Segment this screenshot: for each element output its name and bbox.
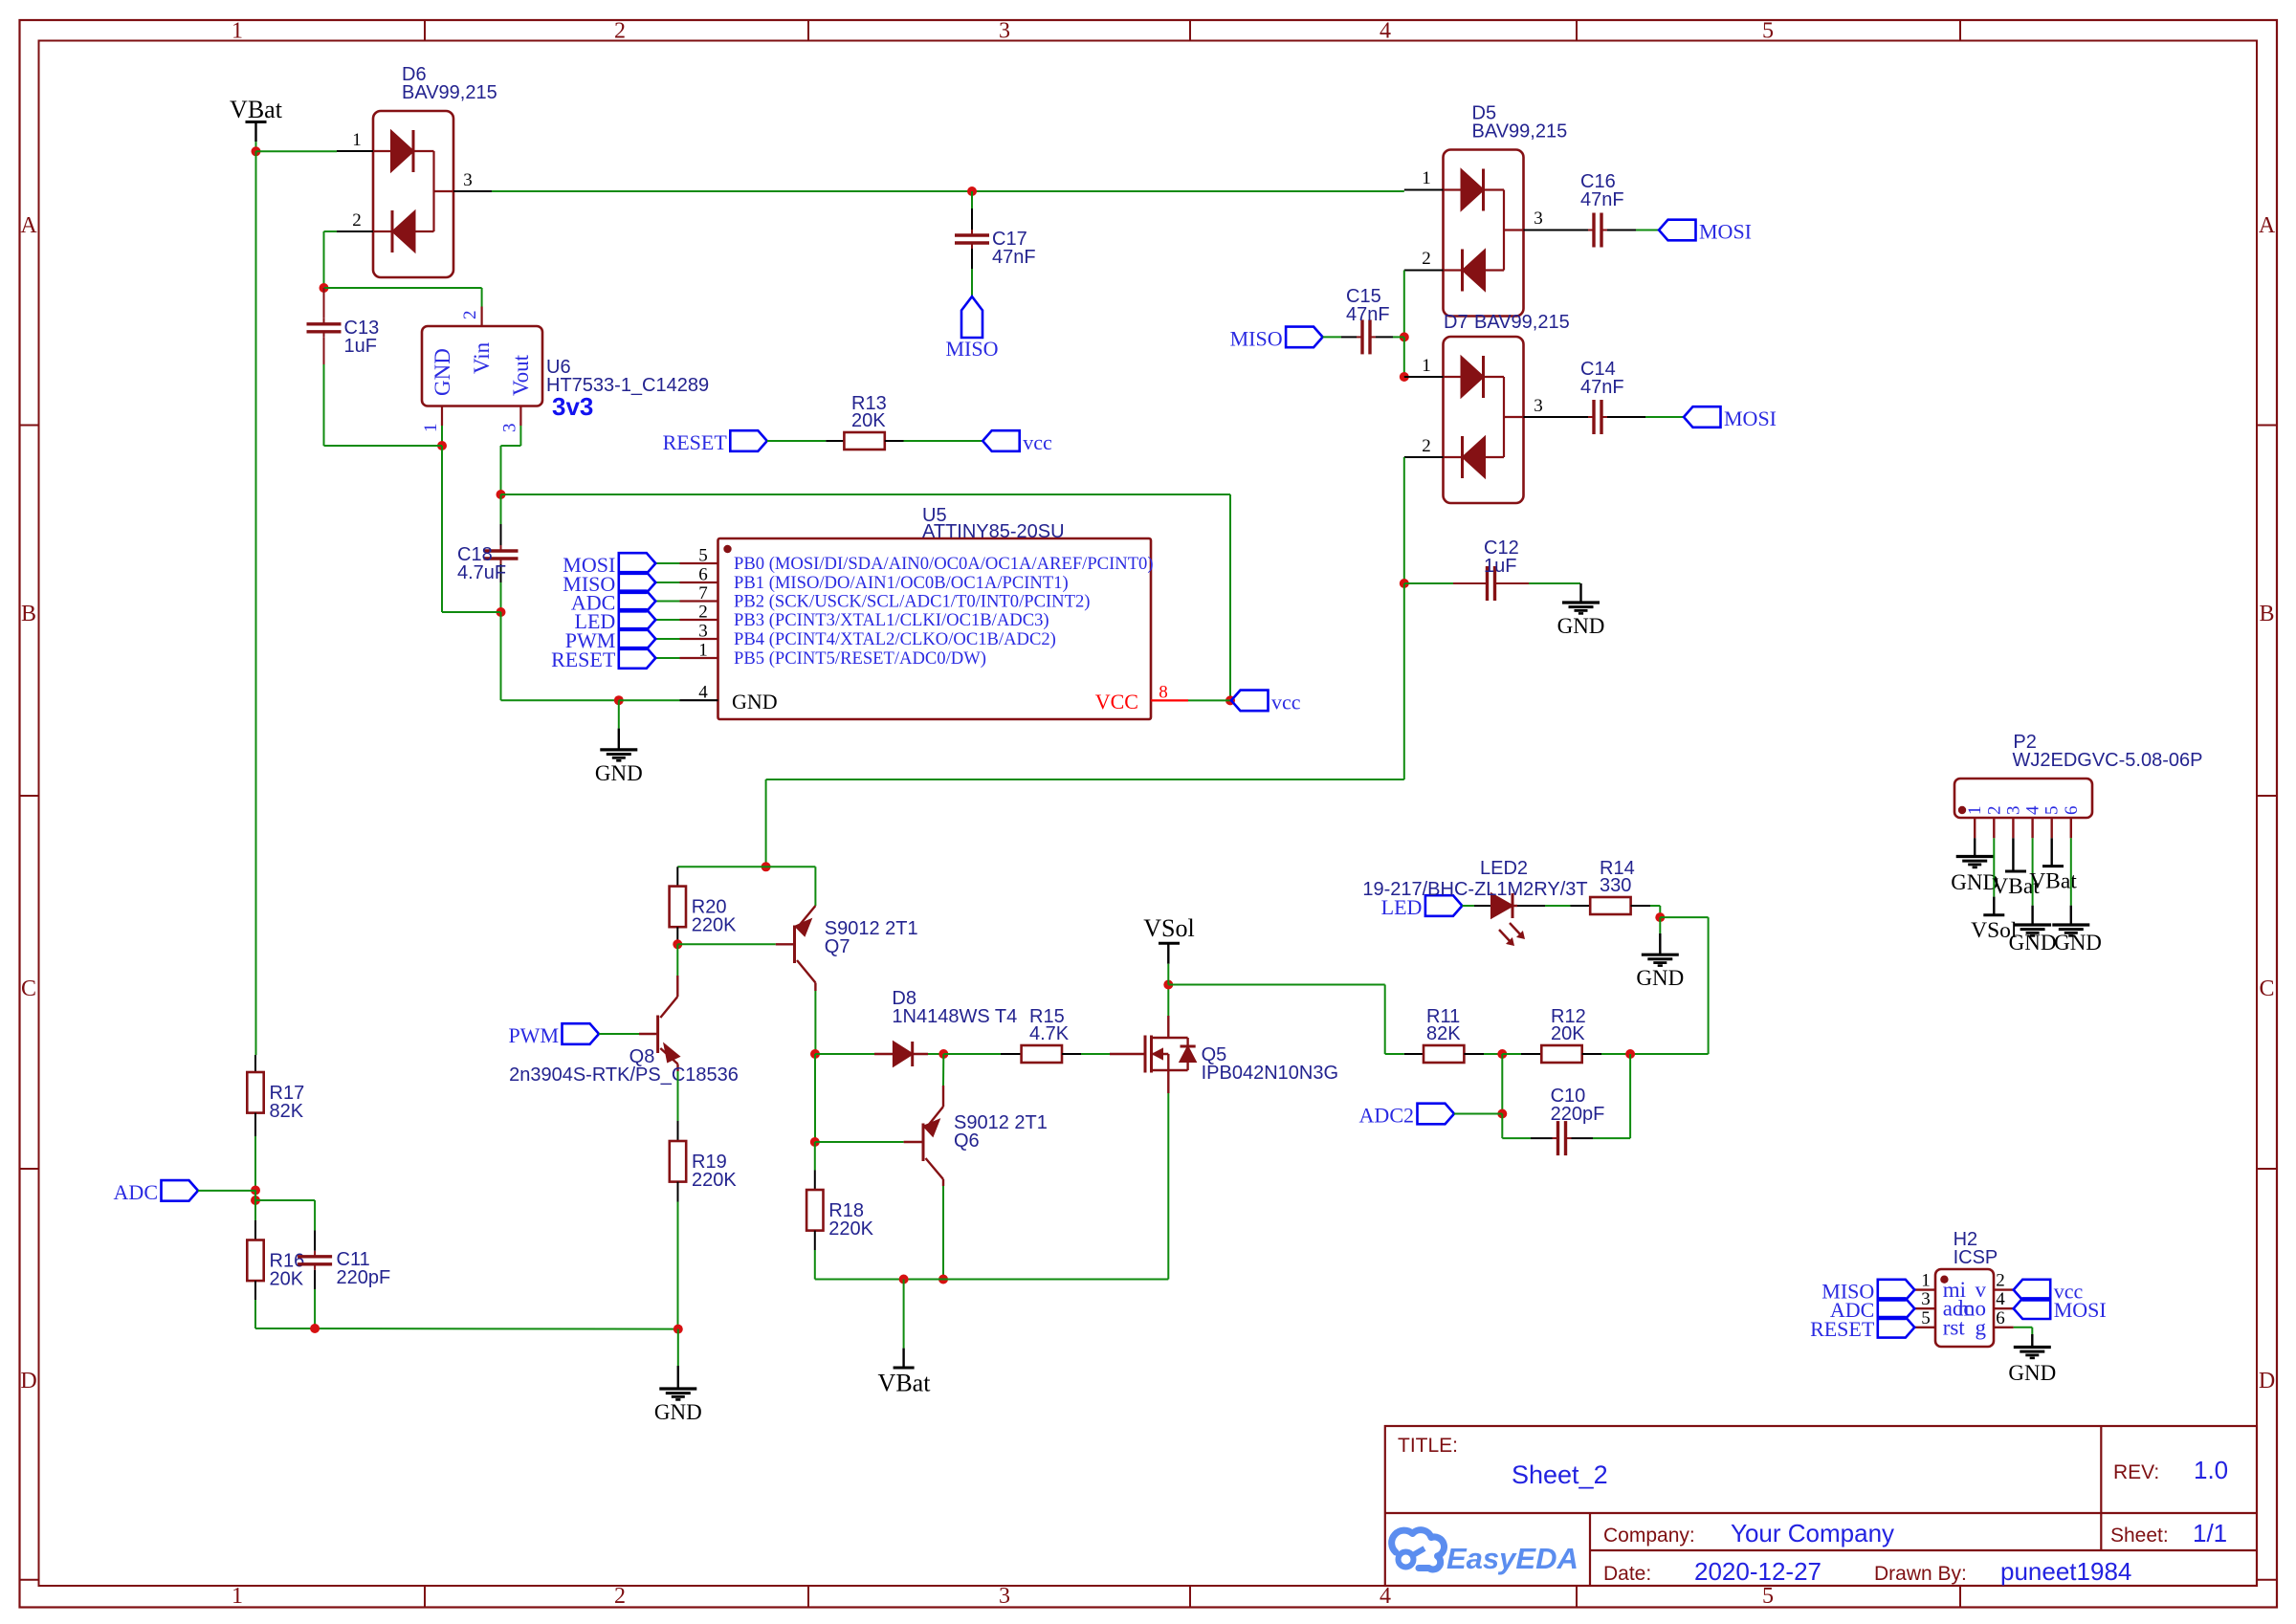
junction VSol — [1163, 980, 1173, 990]
wire to Q6 base — [815, 1141, 904, 1143]
H2 pin6 GND wire — [2014, 1327, 2033, 1328]
H2 pin 5 — [1914, 1308, 1965, 1340]
junction U6 GND — [437, 441, 447, 450]
net flag PWM at U5 — [565, 628, 656, 652]
wire C18 to GND junction — [500, 582, 502, 612]
wire R13 to vcc flag — [904, 440, 983, 442]
svg-text:6: 6 — [1996, 1308, 2005, 1328]
title text — [1398, 1435, 1608, 1489]
svg-text:VCC: VCC — [1095, 690, 1138, 713]
LED2 diode 19-217/BHC-ZL1M2RY/3T — [1362, 858, 1587, 945]
D7 pin2 lead — [1404, 456, 1444, 458]
junction Q7 base node — [673, 939, 682, 949]
wire C11 to rail — [314, 1289, 316, 1328]
D6 pin1 lead — [337, 150, 373, 152]
wire Q5 source down to VBat rail — [1167, 1093, 1169, 1280]
svg-text:PWM: PWM — [508, 1023, 559, 1047]
svg-text:5: 5 — [1921, 1308, 1931, 1328]
wire junction down to C10 right — [1629, 1054, 1631, 1138]
svg-text:220pF: 220pF — [337, 1267, 391, 1288]
wire VBat to D6 pin1 — [256, 150, 338, 152]
svg-text:Vout: Vout — [509, 354, 533, 396]
svg-text:g: g — [1976, 1315, 1987, 1339]
junction vcc node A — [497, 490, 506, 499]
svg-text:1: 1 — [421, 424, 441, 433]
wire to U5 GND pin — [619, 699, 680, 701]
transistor Q6 S9012 PNP — [904, 1086, 1048, 1186]
svg-text:220K: 220K — [692, 1170, 737, 1191]
capacitor C15 47nF — [1341, 286, 1393, 354]
wire U6 Vout to vcc node — [519, 426, 521, 446]
svg-text:Your Company: Your Company — [1731, 1519, 1894, 1547]
svg-text:Q7: Q7 — [825, 936, 850, 957]
GND symbol below U5 — [618, 700, 620, 728]
wire D8 junction to R15 — [943, 1053, 1001, 1055]
svg-text:5: 5 — [698, 546, 708, 566]
resistor R20 220K — [670, 867, 738, 944]
svg-text:6: 6 — [2062, 806, 2082, 816]
EasyEDA logo — [1392, 1530, 1578, 1575]
junction R12 right — [1625, 1049, 1635, 1059]
wire VSol junction to R11 — [1168, 984, 1384, 986]
diode D5 BAV99,215 — [1444, 103, 1568, 317]
svg-text:3v3: 3v3 — [552, 392, 593, 421]
svg-text:1: 1 — [232, 19, 243, 44]
svg-text:TITLE:: TITLE: — [1398, 1435, 1458, 1457]
junction C11 branch — [251, 1196, 260, 1205]
capacitor C14 47nF — [1569, 359, 1645, 434]
ground GND at C12 — [1557, 583, 1605, 638]
svg-text:47nF: 47nF — [1580, 377, 1624, 398]
wire R11 to junction — [1484, 1053, 1502, 1055]
ground GND at ADC rail — [654, 1366, 702, 1424]
capacitor C18 4.7uF — [457, 524, 519, 583]
svg-text:2020-12-27: 2020-12-27 — [1694, 1557, 1821, 1586]
svg-text:PB4 (PCINT4/XTAL2/CLKO/OC1B/AD: PB4 (PCINT4/XTAL2/CLKO/OC1B/ADC2) — [734, 629, 1056, 649]
svg-text:2: 2 — [460, 311, 480, 320]
svg-text:220K: 220K — [828, 1218, 873, 1240]
wire C14 to MOSI flag — [1645, 416, 1684, 418]
svg-text:4: 4 — [1380, 1584, 1391, 1609]
ground GND P2 pin4 — [2009, 906, 2057, 955]
P2 pin4 GND wire — [2032, 838, 2034, 905]
resistor R12 20K — [1521, 1006, 1601, 1063]
wire R15 to Q5 gate — [1081, 1053, 1110, 1055]
svg-text:47nF: 47nF — [1580, 189, 1624, 210]
junction C18 bottom — [497, 607, 506, 617]
diode D7 BAV99,215 — [1444, 337, 1524, 503]
wire R11 junction down to ADC2 — [1501, 1054, 1503, 1114]
ground GND at H2 — [2008, 1334, 2056, 1385]
svg-text:5: 5 — [1762, 19, 1774, 44]
svg-text:8: 8 — [1159, 683, 1168, 703]
capacitor C12 1uF — [1453, 538, 1529, 601]
P2 pin 2 lead — [1984, 806, 2004, 839]
wire pin8 to vcc junction — [1188, 699, 1230, 701]
wire C16 to MOSI flag — [1636, 230, 1659, 231]
junction vcc at U5 pin8 — [1225, 695, 1235, 705]
wire D7 pin3 to C14 — [1569, 416, 1575, 418]
svg-text:1: 1 — [698, 641, 708, 661]
svg-text:3: 3 — [2003, 806, 2023, 816]
power port VSol P2 pin2 — [1971, 915, 2018, 943]
svg-text:20K: 20K — [270, 1269, 304, 1290]
svg-text:2: 2 — [1984, 806, 2004, 816]
svg-text:5: 5 — [2042, 806, 2063, 816]
svg-text:1uF: 1uF — [344, 336, 377, 357]
wire U6 GND down to C18 bottom — [441, 446, 443, 612]
transistor Q7 S9012 PNP — [776, 867, 918, 991]
P2 pin 4 lead — [2023, 805, 2043, 838]
svg-text:2: 2 — [614, 19, 626, 44]
svg-text:4: 4 — [1380, 19, 1391, 44]
capacitor C16 47nF — [1569, 171, 1636, 248]
frame row letters — [20, 213, 2276, 1394]
wire C18 bottom to U5 GND — [500, 612, 502, 700]
svg-text:GND: GND — [595, 761, 643, 785]
junction ADC2 — [1497, 1109, 1507, 1119]
P2 pin5 VBat wire — [2050, 838, 2052, 866]
wire D5 pin3 to C16 — [1569, 230, 1575, 231]
capacitor C13 1uF — [307, 288, 380, 364]
svg-text:3: 3 — [1534, 208, 1543, 229]
svg-text:3: 3 — [999, 1584, 1010, 1609]
svg-text:MISO: MISO — [945, 337, 998, 361]
transistor Q5 IPB042N10N3G NMOS — [1110, 1016, 1338, 1093]
svg-text:2n3904S-RTK/PS_C18536: 2n3904S-RTK/PS_C18536 — [509, 1064, 739, 1086]
wire ADC2 flag — [1454, 1113, 1502, 1115]
net flag PWM at Q8 — [508, 1023, 599, 1047]
wire C12 to GND corner — [1569, 582, 1580, 584]
wire MISO flag to C15 — [1323, 336, 1341, 338]
svg-text:1: 1 — [352, 130, 362, 150]
power port VBat P2 pin3 — [1992, 871, 2040, 899]
wire PWM to Q8 base — [599, 1033, 639, 1035]
H2 pin 1 — [1914, 1271, 1966, 1303]
P2 pin3 VBat wire — [2012, 838, 2014, 871]
frame column numbers — [232, 19, 1774, 1610]
svg-text:C: C — [2259, 977, 2274, 1001]
resistor R19 220K — [670, 1121, 738, 1202]
wire Q7 collector junction down to Q6 base junction — [814, 1054, 816, 1142]
svg-text:RESET: RESET — [1810, 1317, 1875, 1341]
svg-text:1.0: 1.0 — [2194, 1456, 2228, 1484]
svg-text:2: 2 — [614, 1584, 626, 1609]
wire D6 pin2 to C13 junction — [324, 230, 338, 232]
junction Q7 rail — [762, 862, 771, 871]
wire C11 branch — [255, 1199, 315, 1201]
wire junction to D7 pin1 — [1403, 337, 1405, 377]
ground GND P2 pin6 — [2052, 906, 2102, 955]
wire RESET to R13 — [767, 440, 827, 442]
junction VBat stub — [899, 1275, 909, 1284]
svg-text:VBat: VBat — [2029, 869, 2077, 894]
capacitor C11 220pF — [298, 1231, 390, 1290]
net flag RESET at U5 — [551, 647, 655, 671]
ground GND U5 — [595, 729, 643, 785]
svg-text:MOSI: MOSI — [1724, 406, 1777, 430]
junction R14-GND — [1655, 912, 1665, 922]
wire R17 to ADC junction — [254, 1136, 256, 1191]
D5 pin2 lead — [1404, 270, 1444, 272]
net flag vcc at R13 — [982, 430, 1052, 454]
net flag ADC2 — [1359, 1104, 1454, 1128]
svg-text:2: 2 — [352, 210, 362, 230]
net flag vcc at U5 pin8 — [1231, 690, 1301, 713]
svg-text:1: 1 — [1965, 806, 1985, 816]
svg-text:4.7K: 4.7K — [1029, 1023, 1070, 1044]
wire ADC GND rail — [255, 1328, 678, 1330]
P2 pin 5 lead — [2042, 806, 2063, 839]
D7 pin1 lead — [1404, 376, 1444, 378]
junction C13 top — [320, 283, 329, 293]
wire Q6 emitter up to D8 junction — [942, 1054, 944, 1086]
svg-text:BAV99,215: BAV99,215 — [1474, 312, 1570, 333]
regulator U6 HT7533-1 — [421, 307, 709, 433]
svg-text:EasyEDA: EasyEDA — [1446, 1542, 1578, 1575]
wire junction to C17 — [971, 191, 973, 208]
net flag ADC — [114, 1180, 198, 1204]
svg-text:1/1: 1/1 — [2193, 1519, 2227, 1547]
transistor Q8 2n3904 NPN — [509, 976, 739, 1086]
wire LED to R14 — [1545, 905, 1571, 907]
net flag MOSI at U5 — [563, 553, 655, 577]
connector P2 WJ2EDGVC-5.08-06P — [1954, 732, 2202, 818]
wire C12 to GND — [1529, 582, 1569, 584]
svg-text:ADC: ADC — [114, 1180, 158, 1204]
resistor R13 20K — [826, 393, 903, 450]
P2 pin 3 lead — [2003, 806, 2023, 839]
power port VBat top-left — [230, 96, 283, 151]
svg-text:ATTINY85-20SU: ATTINY85-20SU — [922, 521, 1065, 542]
net flag RESET at H2 — [1810, 1317, 1914, 1341]
svg-text:1: 1 — [1422, 168, 1431, 188]
svg-text:A: A — [2259, 213, 2276, 238]
svg-text:GND: GND — [732, 690, 778, 713]
svg-text:1: 1 — [1422, 356, 1431, 376]
svg-text:4.7uF: 4.7uF — [457, 562, 506, 583]
svg-text:2: 2 — [1422, 436, 1431, 456]
wire junction down through R16 — [254, 1191, 256, 1221]
svg-text:D: D — [20, 1369, 36, 1394]
wire C13 bottom to U6 GND junction — [324, 445, 443, 447]
svg-text:Drawn By:: Drawn By: — [1874, 1563, 1967, 1585]
svg-text:2: 2 — [1422, 249, 1431, 269]
P2 pin 6 lead — [2062, 806, 2082, 839]
wire Q7 collector down to D8 junction — [814, 991, 816, 1054]
D7 pin3 lead — [1524, 416, 1570, 418]
svg-text:1: 1 — [1921, 1271, 1931, 1291]
D5 pin3 lead — [1524, 230, 1570, 231]
H2 pin 2 — [1976, 1271, 2014, 1303]
svg-text:BAV99,215: BAV99,215 — [402, 82, 497, 103]
svg-text:A: A — [20, 213, 37, 238]
wire base node to Q7 base — [677, 943, 776, 945]
svg-text:B: B — [21, 602, 36, 626]
net flag MOSI at H2 — [2014, 1298, 2107, 1322]
svg-text:Vin: Vin — [470, 341, 494, 374]
wire to C12 — [1404, 582, 1453, 584]
svg-text:1N4148WS T4: 1N4148WS T4 — [892, 1006, 1017, 1027]
svg-text:PB2 (SCK/USCK/SCL/ADC1/T0/INT0: PB2 (SCK/USCK/SCL/ADC1/T0/INT0/PCINT2) — [734, 592, 1090, 612]
U5 pin 6 MISO — [680, 565, 1069, 594]
wire node from D6 pin3 to D5 pin1 — [492, 190, 1404, 192]
junction C12 — [1400, 579, 1409, 588]
power port VSol — [1143, 914, 1194, 985]
resistor R16 20K — [247, 1220, 304, 1300]
D6 pin2 lead — [337, 230, 373, 232]
capacitor C10 220pF — [1531, 1086, 1604, 1155]
junction GND rail right — [673, 1325, 683, 1334]
ground GND P2 pin1 — [1951, 838, 1998, 894]
wire to C10 — [1502, 1137, 1531, 1139]
capacitor C17 47nF — [955, 208, 1036, 269]
wire vcc node to C18 — [500, 494, 502, 524]
svg-text:3: 3 — [1921, 1289, 1931, 1309]
GND at rail — [677, 1329, 679, 1366]
P2 pin 1 lead — [1965, 806, 1985, 839]
svg-text:GND: GND — [1636, 966, 1684, 990]
svg-text:GND: GND — [2054, 931, 2102, 955]
svg-text:B: B — [2259, 602, 2274, 626]
junction Q6 base — [810, 1137, 820, 1147]
connector H2 ICSP — [1935, 1229, 1998, 1347]
wire C13 bottom — [323, 364, 325, 446]
resistor R17 82K — [247, 1055, 304, 1136]
svg-text:47nF: 47nF — [992, 247, 1036, 268]
U5 pin 5 MOSI — [680, 546, 1154, 575]
svg-text:4: 4 — [1996, 1289, 2005, 1309]
svg-text:MOSI: MOSI — [2054, 1298, 2107, 1322]
svg-text:3: 3 — [999, 19, 1010, 44]
power port VBat bottom — [878, 1280, 932, 1397]
svg-text:D: D — [2259, 1369, 2275, 1394]
diode D8 1N4148WS — [815, 988, 1017, 1066]
svg-text:GND: GND — [2009, 931, 2057, 955]
diode D6 BAV99,215 — [373, 64, 497, 277]
net flag MISO at H2 — [1821, 1280, 1914, 1304]
wire ADC flag to junction — [198, 1190, 255, 1192]
svg-text:Date:: Date: — [1603, 1563, 1651, 1585]
net flag RESET at R13 — [663, 430, 767, 454]
svg-text:GND: GND — [430, 348, 454, 396]
junction R11-R12-ADC2 — [1497, 1049, 1507, 1059]
svg-text:MISO: MISO — [1230, 326, 1283, 350]
wire junction to U6 Vin — [324, 287, 482, 289]
svg-text:19-217/BHC-ZL1M2RY/3T: 19-217/BHC-ZL1M2RY/3T — [1362, 879, 1587, 900]
svg-text:2: 2 — [698, 603, 708, 623]
svg-text:PB0 (MOSI/DI/SDA/AIN0/OC0A/OC1: PB0 (MOSI/DI/SDA/AIN0/OC0A/OC1A/AREF/PCI… — [734, 554, 1154, 574]
wire junction to right column — [1660, 916, 1708, 918]
H2 pin 4 — [1958, 1289, 2014, 1321]
U5 pin 7 ADC — [680, 583, 1091, 612]
resistor R18 220K — [806, 1171, 874, 1251]
svg-text:MOSI: MOSI — [1699, 220, 1752, 244]
svg-text:PB5 (PCINT5/RESET/ADC0/DW): PB5 (PCINT5/RESET/ADC0/DW) — [734, 648, 986, 669]
svg-text:RESET: RESET — [663, 430, 728, 454]
svg-text:PB3 (PCINT3/XTAL1/CLKI/OC1B/AD: PB3 (PCINT3/XTAL1/CLKI/OC1B/ADC3) — [734, 610, 1049, 630]
net flag vcc at H2 — [2014, 1280, 2084, 1304]
svg-text:RESET: RESET — [551, 647, 616, 671]
junction C11 bottom — [310, 1324, 320, 1333]
svg-text:4: 4 — [2023, 805, 2043, 815]
wire R16 to rail — [254, 1300, 256, 1328]
H2 pin 3 — [1914, 1289, 1973, 1321]
junction C17 — [967, 187, 977, 196]
junction Q6 collector at rail — [938, 1275, 948, 1284]
junction MISO-C15 — [1400, 332, 1409, 341]
resistor R15 4.7K — [1001, 1006, 1081, 1063]
net flag MISO at U5 — [563, 572, 655, 596]
svg-text:20K: 20K — [851, 410, 886, 431]
GND at R14 — [1659, 917, 1661, 933]
ground GND at R14 — [1636, 933, 1684, 990]
svg-text:220pF: 220pF — [1551, 1104, 1605, 1125]
svg-text:Company:: Company: — [1603, 1525, 1695, 1547]
MCU U5 ATTINY85-20SU — [718, 505, 1152, 719]
junction D8 cathode / Q6 emitter — [938, 1049, 948, 1059]
title block — [1385, 1426, 2257, 1586]
wire Q8 emitter to R19 — [677, 1071, 679, 1121]
wire R18 to VBat rail — [814, 1250, 816, 1280]
resistor R11 82K — [1404, 1006, 1484, 1063]
svg-text:3: 3 — [698, 622, 708, 642]
junction VBat — [252, 146, 261, 156]
wire Q6 collector down to VBat rail — [942, 1186, 944, 1280]
wire Q6 base junction down to R18 — [814, 1142, 816, 1171]
svg-text:C: C — [21, 977, 36, 1001]
svg-text:D7: D7 — [1444, 312, 1468, 333]
svg-text:82K: 82K — [270, 1101, 304, 1122]
net flag LED — [1381, 895, 1463, 919]
svg-text:VSol: VSol — [1143, 914, 1194, 942]
wire D5 pin2 down to MISO junction — [1403, 271, 1405, 338]
junction ADC — [251, 1186, 260, 1196]
svg-text:GND: GND — [654, 1400, 702, 1424]
svg-text:vcc: vcc — [1271, 690, 1301, 713]
U5 pin 3 PWM — [680, 622, 1056, 650]
svg-text:4: 4 — [698, 683, 708, 703]
rev text — [2113, 1456, 2228, 1484]
svg-text:3: 3 — [500, 424, 520, 433]
svg-text:GND: GND — [1557, 614, 1605, 638]
svg-text:220K: 220K — [692, 915, 737, 936]
wire base node down to Q8 collector — [676, 944, 678, 976]
D5 pin1 lead — [1404, 189, 1444, 191]
wire U6 GND pin to junction — [441, 426, 443, 446]
wire R14 to corner junction — [1650, 905, 1660, 907]
U5 pin 2 LED — [680, 603, 1049, 631]
svg-text:1: 1 — [232, 1584, 243, 1609]
wire C12 junction down to Q7 rail — [1403, 583, 1405, 779]
svg-text:PB1 (MISO/DO/AIN1/OC0B/OC1A/PC: PB1 (MISO/DO/AIN1/OC0B/OC1A/PCINT1) — [734, 573, 1069, 593]
svg-text:1uF: 1uF — [1484, 556, 1516, 577]
D6 pin3 lead — [453, 190, 492, 192]
company row — [1603, 1519, 1894, 1547]
net flag ADC at U5 — [571, 591, 655, 615]
svg-text:Q6: Q6 — [954, 1130, 980, 1152]
U5 pin 4 GND — [680, 683, 778, 714]
net flag MOSI at C14 — [1684, 406, 1777, 430]
D7 labels — [1444, 312, 1570, 333]
svg-text:47nF: 47nF — [1346, 304, 1390, 325]
svg-text:3: 3 — [1534, 396, 1543, 416]
svg-text:ADC2: ADC2 — [1359, 1104, 1414, 1128]
wire C15 to junction — [1393, 336, 1404, 338]
svg-text:Sheet_2: Sheet_2 — [1512, 1460, 1608, 1489]
net flag MOSI at C16 — [1659, 220, 1752, 244]
U5 pin 1 RESET — [680, 641, 986, 669]
